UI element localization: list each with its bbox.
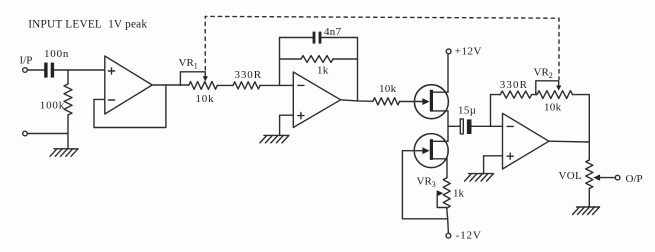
wire C3 to U3 inverting input: [472, 125, 503, 127]
wire VOL to ground: [588, 189, 590, 208]
label 330R: [235, 69, 262, 81]
svg-text:10k: 10k: [379, 83, 397, 95]
label VR2 value 10k: [544, 102, 562, 114]
terminal O/P: [615, 175, 620, 180]
resistor R3 1k feedback: [301, 56, 333, 63]
label 330R feedback: [500, 79, 528, 91]
label 1k feedback: [317, 65, 329, 77]
op-amp U1: [105, 56, 152, 114]
terminal -12V: [446, 233, 451, 238]
wire R5 to VR2: [532, 94, 537, 96]
svg-text:+12V: +12V: [455, 46, 482, 58]
wire Q1 drain to +12V: [447, 54, 449, 92]
svg-text:VOL: VOL: [559, 170, 583, 182]
potentiometer VR3 track 1k: [443, 178, 450, 208]
svg-text:INPUT LEVEL 1V peak: INPUT LEVEL 1V peak: [28, 19, 147, 31]
label -12V: [456, 230, 482, 242]
wire U3 non-inverting input to ground: [484, 156, 503, 174]
label VR1: [179, 57, 198, 71]
svg-text:VR1: VR1: [179, 57, 198, 71]
wire Q2 gate to negative rail: [402, 151, 447, 219]
resistor R4 10k: [373, 98, 400, 105]
wire C1 to op-amp U1 non-inverting input: [54, 69, 105, 71]
label +12V: [455, 46, 482, 58]
wire C2 to U2 output branch: [321, 38, 357, 102]
potentiometer VR2 track 10k: [537, 91, 573, 99]
svg-text:330R: 330R: [235, 69, 262, 81]
label VR2: [534, 67, 553, 81]
wire U1 feedback output to inverting input: [94, 85, 166, 128]
label VOL: [559, 170, 583, 182]
wire coupling junction to C3: [448, 125, 460, 127]
wire I/P terminal to C1: [27, 69, 44, 71]
potentiometer VR1 track 10k: [189, 82, 218, 90]
wire U1 output: [152, 84, 189, 86]
wire U2 non-inverting input to ground: [280, 115, 294, 135]
svg-text:4n7: 4n7: [324, 26, 342, 38]
wire R4 to Q1 gate: [400, 101, 423, 103]
op-amp U2: [293, 72, 340, 128]
label O/P: [626, 173, 643, 185]
wire VR1 to R2: [217, 84, 233, 86]
label 4n7: [324, 26, 342, 38]
wire U2 output: [341, 100, 373, 102]
wire VR1 wiper tie to left terminal: [180, 72, 205, 86]
svg-text:100k: 100k: [40, 100, 65, 112]
label VR3: [417, 176, 436, 190]
svg-text:VR2: VR2: [534, 67, 553, 81]
resistor R5 330R: [500, 91, 531, 98]
VOL wiper arrow: [593, 174, 600, 180]
wire VR2 wiper tie to left terminal: [536, 81, 559, 95]
wire VR2 to U3 output: [573, 95, 590, 142]
wire VR3 to -12V: [447, 208, 449, 233]
wire U2 feedback left branch: [280, 38, 313, 86]
wire VR3 wiper tie to bottom terminal: [437, 193, 447, 207]
svg-text:1k: 1k: [453, 188, 465, 200]
svg-text:O/P: O/P: [626, 173, 643, 185]
label VR3 value 1k: [453, 188, 465, 200]
capacitor C3 15u: [460, 119, 471, 134]
svg-text:I/P: I/P: [20, 55, 33, 67]
label I/P: [20, 55, 33, 67]
VR3 wiper arrow: [437, 190, 444, 196]
wire input return to ground stem: [27, 133, 68, 135]
potentiometer VOL track: [586, 160, 593, 189]
transistor Q2 JFET: [414, 134, 448, 168]
op-amp U3: [503, 113, 549, 169]
label 100n: [44, 48, 69, 60]
VR2 wiper arrow: [556, 86, 561, 91]
svg-text:10k: 10k: [544, 102, 562, 114]
label 15u: [458, 105, 477, 117]
wire U3 output: [549, 140, 589, 143]
ground VOL: [573, 207, 600, 215]
svg-text:-12V: -12V: [456, 230, 482, 242]
ground U2: [260, 135, 289, 143]
mechanical gang link VR1 to VR2 (dashed): [205, 16, 559, 79]
svg-text:100n: 100n: [44, 48, 69, 60]
capacitor C1 100n: [44, 63, 54, 78]
wire VOL wiper to O/P: [600, 177, 616, 179]
wire R2 to U2 inverting input: [260, 84, 293, 86]
VR1 wiper arrow: [203, 76, 208, 81]
capacitor C2 4n7: [313, 32, 322, 44]
terminal +12V: [446, 49, 451, 54]
label VR1 value 10k: [196, 93, 215, 105]
label 10k series: [379, 83, 397, 95]
svg-text:15µ: 15µ: [458, 105, 477, 117]
wire Q2 source to VR3: [446, 159, 448, 178]
svg-text:330R: 330R: [500, 79, 528, 91]
ground input: [50, 149, 78, 157]
ground U3: [465, 174, 494, 182]
resistor R1 100k: [64, 70, 72, 149]
label title INPUT LEVEL 1V peak: [28, 19, 147, 31]
svg-text:1k: 1k: [317, 65, 329, 77]
wire 1k branch left: [280, 58, 302, 60]
wire Q1 source to Q2 drain: [447, 111, 449, 141]
wire U3 feedback riser: [491, 95, 501, 127]
svg-text:VR3: VR3: [417, 176, 436, 190]
transistor Q1 JFET: [414, 85, 448, 119]
wire 1k branch right: [333, 58, 358, 60]
terminal input return: [23, 131, 28, 136]
resistor R2 330R: [233, 82, 260, 89]
terminal I/P input: [23, 68, 28, 73]
label 100k: [40, 100, 65, 112]
svg-text:10k: 10k: [196, 93, 215, 105]
wire U3 output to VOL: [588, 142, 590, 160]
